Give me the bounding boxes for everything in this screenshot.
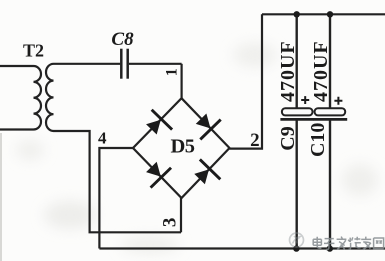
wire C8 to node 1	[129, 63, 182, 65]
svg-text:3: 3	[160, 218, 181, 228]
wire node 4 to bottom rail	[99, 148, 133, 249]
capacitor C10 wire upper	[329, 14, 331, 108]
svg-text:T2: T2	[23, 41, 44, 61]
svg-text:C10: C10	[307, 123, 329, 157]
junction dot C10 top	[327, 11, 333, 17]
svg-text:C8: C8	[111, 29, 134, 50]
svg-text:1: 1	[163, 68, 180, 76]
svg-text:D5: D5	[170, 136, 194, 158]
wire node 1 vertical	[181, 64, 183, 98]
svg-text:4: 4	[98, 129, 107, 148]
scan edge artifact left	[0, 133, 2, 261]
capacitor C9 plates	[280, 108, 313, 119]
bridge rectifier D5 diamond	[133, 98, 230, 198]
watermark logo	[290, 233, 304, 247]
label C9 plus	[301, 96, 309, 104]
svg-text:C9: C9	[277, 126, 299, 150]
wire secondary top lead to C8	[54, 63, 121, 65]
transformer T2 secondary winding	[46, 64, 54, 131]
svg-text:2: 2	[250, 130, 260, 151]
junction dot C9 top	[294, 11, 300, 17]
capacitor C9 wire upper	[296, 14, 298, 108]
diode D5b top-right (anode node1, cathode node2)	[190, 109, 220, 139]
transformer T2 primary winding	[34, 66, 42, 130]
svg-text:470UF: 470UF	[277, 40, 299, 102]
diode D5c bottom-left (anode node4, cathode node3)	[141, 157, 171, 187]
wire primary top lead	[0, 65, 34, 67]
diode D5d bottom-right (anode node3, cathode node2)	[190, 159, 220, 189]
wire node 2 to top rail	[230, 14, 263, 148]
junction dot C10 bottom	[327, 245, 333, 251]
capacitor C10 wire lower	[329, 119, 331, 248]
watermark text	[313, 237, 383, 250]
wire node 3 vertical	[180, 198, 182, 232]
bottom rail	[99, 247, 385, 249]
label C10 plus	[334, 97, 342, 105]
wire primary bottom lead	[0, 128, 34, 130]
svg-text:470UF: 470UF	[310, 40, 332, 102]
diode D5a top-left (anode node4, cathode node1)	[142, 110, 172, 140]
wire secondary bottom to node 3	[54, 131, 182, 232]
capacitor C8	[121, 49, 127, 79]
top rail	[262, 13, 385, 15]
junction dot C9 bottom	[293, 245, 299, 251]
capacitor C9 wire lower	[296, 119, 298, 248]
capacitor C10 plates	[313, 108, 347, 119]
